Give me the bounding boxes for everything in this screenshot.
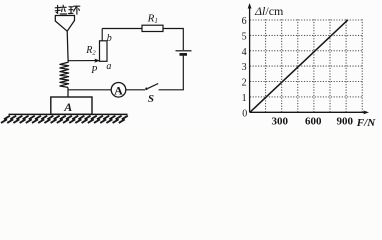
switch pivot [145,88,148,91]
rheostat R2 body [100,41,108,62]
svg-text:3: 3 [242,62,247,73]
wire spring to block [67,87,69,97]
svg-text:S: S [148,93,154,105]
svg-text:Δl/cm: Δl/cm [254,4,284,18]
svg-text:A: A [114,83,123,97]
svg-text:A: A [63,100,72,114]
block A [51,97,92,114]
wire ammeter to spring junction [68,89,111,91]
svg-text:P: P [90,65,97,76]
data line [250,20,348,112]
svg-text:600: 600 [305,115,322,127]
spring coil [60,61,69,87]
ammeter A [111,83,126,98]
x axis [250,111,366,113]
svg-text:1: 1 [242,93,247,104]
wire top rail right segment [163,29,183,51]
wire rod to slider P [68,60,96,62]
ground hatching [1,116,128,123]
rod from funnel to slider [66,31,69,61]
wire switch to ammeter [126,89,145,91]
svg-text:300: 300 [272,115,289,127]
svg-text:2: 2 [242,78,247,89]
svg-text:F/N: F/N [356,117,376,129]
vertical dotted gridlines [266,20,363,112]
svg-text:900: 900 [337,115,354,127]
x tick labels [272,115,354,127]
battery cell [176,51,192,55]
funnel hopper [55,15,74,31]
horizontal dotted gridlines [250,20,362,97]
y axis [249,6,251,113]
svg-text:b: b [107,33,112,44]
svg-text:0: 0 [242,108,247,119]
label 拉环 (pull-ring) hand-drawn strokes [55,5,80,14]
wire rheostat top to top rail [101,29,103,41]
svg-text:a: a [106,61,111,72]
ground line [9,113,128,115]
y tick labels [242,16,248,119]
switch S blade [148,84,158,89]
wire battery to bottom right corner [159,56,184,90]
slider arrow P [95,59,99,62]
resistor R1 [142,25,163,31]
wire top rail left segment [102,28,142,30]
svg-text:4: 4 [242,47,247,58]
svg-text:5: 5 [242,32,247,43]
svg-text:6: 6 [242,16,247,27]
